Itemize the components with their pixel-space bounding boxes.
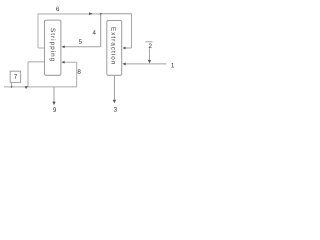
label Extraction: [111, 27, 116, 64]
wire stream 7 bottom horizontal: [4, 86, 77, 88]
junction node at box 7 stub: [11, 86, 13, 88]
wire loop right vertical: [131, 14, 133, 49]
wire right riser x77 (stream 8): [76, 62, 78, 87]
arrow stream 5 into stripping: [62, 45, 65, 48]
wire stream 4 vertical: [100, 14, 102, 47]
junction node at stream 4 tee: [100, 13, 102, 15]
arrow stream 9 down: [52, 102, 55, 106]
label 4: [93, 30, 96, 34]
wire recycle top horizontal to loop: [100, 13, 131, 15]
label 7: [14, 74, 17, 78]
arrow stream 2 down: [148, 60, 151, 64]
wire stream 2 tick: [145, 41, 152, 43]
stripping column vessel: [45, 20, 61, 75]
wire left riser x28: [27, 62, 29, 87]
wire stream 6 top horizontal: [38, 13, 101, 15]
wire stream 8 into stripping right side: [64, 61, 77, 63]
arrow stream 8 into stripping: [61, 61, 64, 64]
wire left outer vertical of recycle: [37, 14, 39, 49]
arrow stream 3 down: [113, 100, 116, 104]
wire stream 5 horizontal: [64, 46, 101, 48]
wire into stripping left side y48: [38, 47, 45, 49]
box around label 7: [10, 71, 20, 82]
wire loop bottom into extraction: [124, 47, 132, 49]
extraction column vessel: [107, 21, 122, 76]
arrow stream 1 into extraction: [122, 62, 125, 65]
wire stream 1 horizontal: [124, 63, 167, 65]
arrow into extraction right from loop: [122, 47, 125, 50]
label 6: [56, 7, 59, 12]
label 8: [78, 69, 81, 74]
arrow stream 7 at corner: [25, 85, 29, 89]
arrow on stream 6: [89, 12, 92, 15]
wire stream 2 vertical: [149, 48, 151, 61]
wire box 7 stub: [11, 82, 13, 87]
label 9: [53, 107, 56, 112]
label 2: [149, 44, 152, 48]
wire stream 9 drop: [53, 87, 55, 102]
wire into stripping left side y62: [28, 61, 45, 63]
label 5: [79, 39, 82, 43]
label Stripping: [50, 28, 56, 61]
label 3: [114, 107, 117, 112]
wire stream 3 drop: [113, 75, 115, 100]
label 1: [171, 63, 174, 67]
